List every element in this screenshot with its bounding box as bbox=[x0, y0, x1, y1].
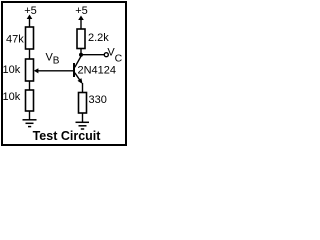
svg-text:2N4124: 2N4124 bbox=[78, 65, 117, 77]
wire pot to lower 10k bbox=[29, 81, 31, 90]
junction collector node bbox=[79, 53, 83, 57]
wire 330 to ground bbox=[82, 113, 84, 123]
wiper arrow to base wire bbox=[34, 68, 74, 73]
resistor 330 bbox=[79, 93, 87, 114]
svg-text:C: C bbox=[115, 52, 123, 64]
wire 47k to pot bbox=[29, 49, 31, 59]
node VB label bbox=[46, 52, 60, 67]
transistor 2N4124 bbox=[74, 56, 83, 85]
resistor 47k bbox=[26, 27, 34, 49]
wire emitter to 330 bbox=[82, 83, 84, 93]
node VC label bbox=[107, 46, 122, 64]
resistor 10k (lower) bbox=[26, 90, 34, 111]
svg-text:10k: 10k bbox=[3, 91, 21, 103]
svg-text:Test Circuit: Test Circuit bbox=[33, 129, 102, 143]
wire 2.2k to collector node bbox=[80, 49, 82, 56]
wire to VC terminal bbox=[81, 54, 104, 56]
+5 supply (left) bbox=[24, 5, 37, 27]
ground (right) bbox=[76, 122, 90, 129]
svg-text:B: B bbox=[53, 56, 60, 67]
wire 10k to ground bbox=[29, 111, 31, 120]
resistor 2.2k bbox=[77, 29, 85, 49]
potentiometer 10k (upper) bbox=[26, 59, 34, 81]
ground (left) bbox=[23, 120, 37, 127]
VC terminal (open circle) bbox=[104, 53, 108, 57]
svg-text:2.2k: 2.2k bbox=[88, 32, 109, 44]
svg-text:330: 330 bbox=[89, 94, 107, 106]
svg-text:+5: +5 bbox=[24, 5, 37, 17]
svg-text:47k: 47k bbox=[6, 34, 24, 46]
svg-text:10k: 10k bbox=[3, 64, 21, 76]
+5 supply (right) bbox=[75, 5, 88, 29]
svg-text:+5: +5 bbox=[75, 5, 88, 17]
